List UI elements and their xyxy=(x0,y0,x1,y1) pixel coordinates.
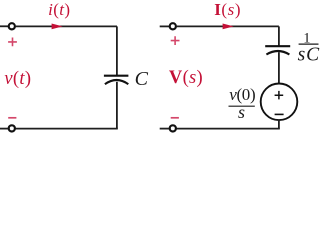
wire: right branch between capacitor and source xyxy=(278,52,280,84)
wire: left circuit top horizontal xyxy=(16,25,117,27)
svg-text:sC: sC xyxy=(298,44,321,65)
wire: left circuit bottom horizontal xyxy=(16,128,118,130)
current arrow I(s) xyxy=(223,24,234,30)
wire: left circuit bottom-left stub xyxy=(0,128,8,130)
label -: right port polarity minus xyxy=(171,117,179,119)
label +: right port polarity plus xyxy=(171,36,180,45)
svg-text:i(t): i(t) xyxy=(48,0,70,19)
label -: left port polarity minus xyxy=(8,117,16,119)
terminal: left circuit top port node xyxy=(9,23,15,29)
label v(0)/s fraction bar xyxy=(229,105,255,107)
svg-text:C: C xyxy=(135,68,149,90)
label +: source internal plus xyxy=(275,91,284,100)
terminal: left circuit bottom port node xyxy=(9,125,15,131)
wire: right circuit bottom horizontal xyxy=(177,128,280,130)
svg-text:s: s xyxy=(238,102,245,122)
capacitor 1/sC top plate xyxy=(265,45,290,47)
svg-text:v(t): v(t) xyxy=(4,69,31,89)
svg-text:I(s): I(s) xyxy=(214,0,241,19)
wire: right circuit top horizontal xyxy=(177,25,279,27)
terminal: right circuit top port node xyxy=(170,23,176,29)
wire: left circuit top-left stub xyxy=(0,25,8,27)
label +: left port polarity plus xyxy=(8,38,17,47)
label 1/sC fraction bar xyxy=(299,43,319,45)
svg-text:V(s): V(s) xyxy=(169,68,203,88)
voltage source V1: initial-condition source circle xyxy=(261,84,298,121)
current arrow i(t) xyxy=(52,24,63,30)
capacitor C bottom curved plate xyxy=(105,80,128,84)
svg-text:v(0): v(0) xyxy=(229,85,255,104)
capacitor 1/sC bottom curved plate xyxy=(266,51,289,55)
wire: left circuit right branch upper xyxy=(116,26,118,76)
wire: right circuit right branch upper xyxy=(278,26,280,46)
wire: right branch below source xyxy=(278,120,280,129)
wire: right circuit top-left stub xyxy=(160,25,170,27)
terminal: right circuit bottom port node xyxy=(170,125,176,131)
wire: left circuit right branch lower xyxy=(116,82,118,129)
label -: source internal minus xyxy=(275,113,284,115)
capacitor C top plate xyxy=(104,75,128,77)
wire: right circuit bottom-left stub xyxy=(160,128,170,130)
